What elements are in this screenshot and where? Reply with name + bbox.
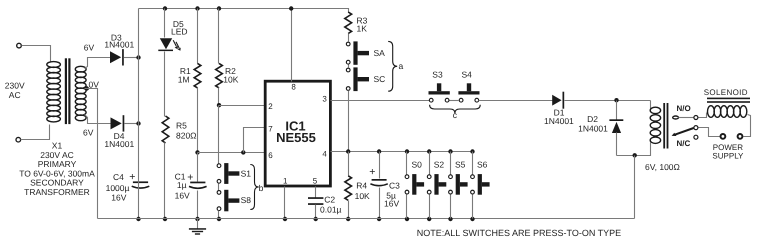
svg-text:10K: 10K xyxy=(223,75,238,85)
svg-text:1: 1 xyxy=(283,176,288,185)
wire ground rail xyxy=(98,218,635,220)
svg-text:6V: 6V xyxy=(83,128,94,138)
node C2 ground xyxy=(314,217,318,221)
svg-text:SUPPLY: SUPPLY xyxy=(712,152,744,161)
wire relay coil bottom lead xyxy=(617,143,651,156)
svg-text:1µ: 1µ xyxy=(177,180,187,190)
wire R3 to SA xyxy=(348,34,350,42)
terminal mains neutral xyxy=(16,137,21,142)
svg-text:1N4001: 1N4001 xyxy=(544,116,574,126)
wire pin 7 xyxy=(244,128,265,153)
node S2 top xyxy=(427,149,431,153)
svg-text:820Ω: 820Ω xyxy=(176,131,197,141)
contact N/O xyxy=(694,116,698,120)
svg-text:N/O: N/O xyxy=(677,104,691,113)
svg-text:C3: C3 xyxy=(389,181,400,191)
node R5 ground xyxy=(163,217,167,221)
solenoid core xyxy=(707,98,750,100)
svg-text:NOTE:ALL SWITCHES ARE PRESS-TO: NOTE:ALL SWITCHES ARE PRESS-TO-ON TYPE xyxy=(417,228,621,238)
wire R1 to node X xyxy=(197,88,199,153)
brace c xyxy=(430,105,481,113)
wire S2 top lead xyxy=(429,152,431,175)
wire pin 6 xyxy=(198,152,265,154)
terminal mains live xyxy=(17,43,22,48)
switch S3 xyxy=(429,98,433,102)
switch S0 xyxy=(405,175,409,179)
svg-text:S1: S1 xyxy=(241,169,252,179)
wire pin 1 to ground xyxy=(284,187,286,219)
svg-text:1M: 1M xyxy=(178,75,190,85)
node C3 ground xyxy=(377,217,381,221)
wire S8 to ground xyxy=(218,211,220,219)
node pin2 junction xyxy=(217,103,221,107)
contact N/C xyxy=(694,135,698,139)
capacitor C4 1000u xyxy=(133,181,148,183)
terminal power supply left xyxy=(721,134,726,139)
wire S3-S4 xyxy=(450,100,459,102)
capacitor C1 1u xyxy=(197,153,199,182)
svg-text:SA: SA xyxy=(374,48,386,58)
wire pin 2 xyxy=(219,105,265,107)
svg-text:230V: 230V xyxy=(5,81,25,91)
LED D5 xyxy=(160,38,172,49)
node D2 top junction xyxy=(614,98,618,102)
node X pins 6-7 junction xyxy=(195,150,199,154)
svg-text:+: + xyxy=(129,171,135,183)
capacitor C3 5u xyxy=(379,152,381,179)
svg-text:1K: 1K xyxy=(357,24,368,34)
node R4 ground xyxy=(346,217,350,221)
svg-text:TRANSFORMER: TRANSFORMER xyxy=(24,187,90,197)
diode D2 1N4001 xyxy=(616,101,618,120)
svg-text:R4: R4 xyxy=(356,181,367,191)
svg-text:8: 8 xyxy=(291,82,296,91)
svg-text:a: a xyxy=(399,61,404,71)
wire pin 3 output xyxy=(331,100,430,102)
wire secondary 6V top tap xyxy=(85,58,111,69)
capacitor C2 0.01u xyxy=(308,197,323,199)
node D4 cathode junction xyxy=(136,121,140,125)
svg-text:N/C: N/C xyxy=(677,139,691,148)
svg-text:+: + xyxy=(187,171,193,183)
diode D1 1N4001 xyxy=(552,95,561,106)
wire R1 top lead xyxy=(197,9,199,64)
wire S1-S8 xyxy=(218,184,220,191)
svg-text:0.01µ: 0.01µ xyxy=(320,205,342,215)
svg-text:SC: SC xyxy=(374,74,386,84)
wire S4 to D1 xyxy=(479,100,553,102)
diode D4 1N4001 xyxy=(111,117,122,129)
node C1 ground xyxy=(195,217,199,221)
node S6 ground xyxy=(470,217,474,221)
wire relay coil top lead xyxy=(650,101,652,109)
switch S5 xyxy=(449,175,453,179)
svg-text:S4: S4 xyxy=(461,69,472,79)
node pin1 ground xyxy=(283,217,287,221)
wire SA-SC xyxy=(348,65,350,68)
transformer X1 core xyxy=(65,58,67,124)
switch SA xyxy=(346,42,350,46)
svg-text:C4: C4 xyxy=(113,172,124,182)
svg-text:1N4001: 1N4001 xyxy=(104,39,134,49)
svg-text:POWER: POWER xyxy=(713,143,743,152)
node S5 top xyxy=(448,149,452,153)
wire S0 bottom lead xyxy=(406,195,408,219)
svg-text:1000µ: 1000µ xyxy=(106,183,130,193)
wire S6 bottom lead xyxy=(472,195,474,219)
switch SC xyxy=(346,68,350,72)
wire LED anode xyxy=(164,9,166,38)
node LED top xyxy=(163,6,167,10)
diode D3 1N4001 xyxy=(110,51,121,63)
wire R2 top lead xyxy=(218,9,220,64)
wire SC down to pin4 line xyxy=(348,91,350,152)
contact common xyxy=(694,126,698,130)
svg-text:c: c xyxy=(453,110,458,120)
svg-text:16V: 16V xyxy=(175,191,190,201)
wire R4 to ground xyxy=(348,201,350,219)
switch S1 xyxy=(217,164,221,168)
wire N/O to solenoid xyxy=(699,113,707,118)
wire pin 8 xyxy=(291,9,293,82)
wire S0 top lead xyxy=(406,152,408,175)
svg-text:S0: S0 xyxy=(412,160,423,170)
node S8 ground xyxy=(217,217,221,221)
brace a xyxy=(388,41,397,91)
terminal power supply right xyxy=(738,134,743,139)
node SA-SC chain to pin4 line xyxy=(346,149,350,153)
wire D1 to relay xyxy=(565,100,651,102)
wire top +V rail xyxy=(139,9,349,13)
node S2 ground xyxy=(427,217,431,221)
resistor R5 820ohm xyxy=(162,116,169,143)
svg-text:2: 2 xyxy=(268,102,273,111)
resistor R1 1M xyxy=(194,63,201,88)
wire pole to N/O contact xyxy=(679,117,694,119)
wire secondary 6V bottom tap xyxy=(85,115,111,124)
node S6 top xyxy=(470,149,474,153)
svg-text:S8: S8 xyxy=(241,195,252,205)
svg-text:C2: C2 xyxy=(324,195,335,205)
svg-text:6V: 6V xyxy=(84,43,95,53)
relay core xyxy=(663,103,665,149)
op-amp U1 IC1 NE555 body xyxy=(265,81,330,186)
wire R4 top lead xyxy=(348,152,350,176)
svg-text:S5: S5 xyxy=(455,160,466,170)
wire R2 to pin2 node xyxy=(218,88,220,106)
wire S2 bottom lead xyxy=(429,195,431,219)
svg-text:6: 6 xyxy=(268,151,273,160)
node D3 cathode junction xyxy=(136,55,140,59)
brace b xyxy=(250,165,258,210)
wire pin 5 to C2 xyxy=(315,187,317,198)
svg-text:R5: R5 xyxy=(176,121,187,131)
wire R5 to ground xyxy=(164,143,166,219)
svg-text:S2: S2 xyxy=(434,160,445,170)
svg-text:S3: S3 xyxy=(432,69,443,79)
wire +V rail vertical xyxy=(138,9,140,182)
wire solenoid to supply xyxy=(744,115,751,137)
svg-text:5: 5 xyxy=(313,176,318,185)
wire S5 top lead xyxy=(450,152,452,175)
svg-text:7: 7 xyxy=(268,125,273,134)
node R1 top xyxy=(195,6,199,10)
relay armature xyxy=(675,128,694,135)
switch S6 xyxy=(471,175,475,179)
svg-text:1N4001: 1N4001 xyxy=(578,124,608,134)
switch S4 xyxy=(459,98,463,102)
node C3 top xyxy=(377,149,381,153)
svg-text:16V: 16V xyxy=(111,193,126,203)
svg-text:SOLENOID: SOLENOID xyxy=(704,88,748,97)
svg-text:S6: S6 xyxy=(477,160,488,170)
svg-text:16V: 16V xyxy=(384,199,399,209)
resistor R2 10K xyxy=(216,63,223,88)
node pin8 rail xyxy=(289,6,293,10)
resistor R3 1K xyxy=(345,12,352,34)
relay RL1 coil xyxy=(650,107,660,113)
svg-text:AC: AC xyxy=(9,90,21,100)
wire LED cathode to R5 xyxy=(164,52,166,117)
transformer X1 primary winding xyxy=(47,62,61,68)
switch S2 xyxy=(427,175,431,179)
wire S6 top lead xyxy=(472,152,474,175)
node pin7 tap xyxy=(241,150,245,154)
svg-text:b: b xyxy=(259,183,264,193)
svg-text:1N4001: 1N4001 xyxy=(104,139,134,149)
svg-text:LED: LED xyxy=(171,26,188,36)
node S0 top xyxy=(405,149,409,153)
node R2 top xyxy=(217,6,221,10)
wire pin2 node down to S1 xyxy=(218,106,220,164)
svg-text:6V, 100Ω: 6V, 100Ω xyxy=(645,162,680,172)
svg-text:NE555: NE555 xyxy=(276,130,316,145)
switch S8 xyxy=(217,191,221,195)
ground symbol xyxy=(197,219,199,229)
node S0 ground xyxy=(405,217,409,221)
relay pole pivot xyxy=(673,116,679,119)
svg-text:3: 3 xyxy=(322,95,327,104)
solenoid coil xyxy=(708,106,715,118)
wire S5 bottom lead xyxy=(450,195,452,219)
svg-text:4: 4 xyxy=(322,150,327,159)
svg-text:10K: 10K xyxy=(355,191,370,201)
wire common to supply xyxy=(699,128,720,137)
svg-text:+: + xyxy=(369,166,375,178)
node relay bottom junction xyxy=(633,153,637,157)
transformer X1 secondary winding xyxy=(75,66,86,72)
wire pin 4 reset xyxy=(331,151,473,153)
node C4 ground xyxy=(136,217,140,221)
resistor R4 10K xyxy=(345,176,352,201)
node S5 ground xyxy=(448,217,452,221)
svg-text:0V: 0V xyxy=(89,79,100,89)
wire relay to ground rail xyxy=(634,156,636,219)
node 0V centre tap xyxy=(85,86,89,90)
